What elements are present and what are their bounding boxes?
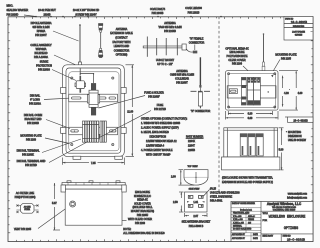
svg-text:P/N 2263: P/N 2263 [26,138,37,141]
svg-text:STEEL HARDWARE: STEEL HARDWARE [210,195,233,198]
dim 11.00 [126,65,135,157]
svg-text:P/N A-1060A: P/N A-1060A [34,56,48,59]
top label: coax rg174 [150,8,166,17]
svg-text:COLLINEAR: COLLINEAR [175,78,189,81]
svg-text:11.00: 11.00 [127,110,134,113]
svg-text:APPROVED BY: APPROVED BY [232,237,246,240]
svg-text:AC FILTER LINE: AC FILTER LINE [16,192,35,195]
mounting plate [69,72,119,151]
svg-text:10-C-0291B: 10-C-0291B [291,21,308,24]
svg-text:WITH ON/OFF 70AMP: WITH ON/OFF 70AMP [146,153,171,156]
svg-text:01/06/15: 01/06/15 [295,35,302,37]
svg-text:DIN RAIL TERMINAL GND: DIN RAIL TERMINAL GND [17,160,46,163]
svg-text:COAX LMR400: COAX LMR400 [185,7,202,10]
callout: enclosure nonmetallic [131,191,154,217]
revisions box [284,17,313,41]
svg-text:P/N 2246B: P/N 2246B [164,30,176,33]
svg-text:SOLID COVER: SOLID COVER [134,202,151,205]
svg-text:12V/5W NEMA 4: 12V/5W NEMA 4 [146,144,165,147]
callout: dipole antenna [31,22,79,41]
ground terminal block [98,121,106,142]
svg-text:DIN RAIL: DIN RAIL [30,94,41,97]
svg-text:FINISH: FINISH [248,219,255,221]
svg-text:P/N 2285J: P/N 2285J [137,214,149,217]
svg-text:LAST UPDATE: LAST UPDATE [292,31,305,34]
svg-text:2264K: 2264K [188,140,195,143]
top label: coax lmr400 [185,7,222,17]
radio module on din rail [87,83,99,115]
svg-text:915 MHz 2.1dBi: 915 MHz 2.1dBi [32,26,50,29]
svg-text:SEE ANTENNA BRACKET: SEE ANTENNA BRACKET [182,221,211,224]
callout: surge protection [36,60,76,80]
mini dwg no box [285,117,313,122]
svg-text:WRPSMA: WRPSMA [36,48,47,51]
svg-text:DIMENSION: DIMENSION [288,135,302,138]
callout: with clear cover [122,218,152,225]
callout: antenna extension cable [110,28,133,57]
dim 5.90 [279,128,284,170]
svg-text:P/N 2261B: P/N 2261B [188,11,200,14]
svg-text:2265B: 2265B [188,149,195,152]
svg-text:ALL DIMENSIONS ARE IN INCHES: ALL DIMENSIONS ARE IN INCHES [123,231,165,235]
svg-text:5.90: 5.90 [279,148,284,151]
top label: sealing washer [7,5,37,18]
optional enclosure whip antenna [262,33,265,70]
dim 5.97 [52,183,60,230]
dim 2.97 [185,213,208,218]
svg-text:X.X ± .060: X.X ± .060 [233,216,241,218]
svg-text:1. WINDOW RFI SHIELDING 2269B: 1. WINDOW RFI SHIELDING 2269B [141,122,180,125]
svg-text:ANTENNA: ANTENNA [164,22,176,25]
svg-text:MOUNTING PLATE: MOUNTING PLATE [275,53,297,56]
svg-text:P/N 2264: P/N 2264 [232,63,243,66]
svg-text:USE #8 SCREW: USE #8 SCREW [288,139,307,142]
antenna bracket side view [185,189,208,212]
enclosure mounting feet [73,156,81,159]
svg-text:P/N 2268T: P/N 2268T [176,81,188,84]
svg-text:P/N 2340B: P/N 2340B [152,12,164,15]
svg-text:OPTIONS): OPTIONS) [116,54,128,57]
corner screws [71,77,114,146]
svg-text:4.33: 4.33 [284,92,289,95]
svg-text:DIPOLE ANTENNA: DIPOLE ANTENNA [31,22,52,25]
svg-text:U-BOLTS AND STAINLESS: U-BOLTS AND STAINLESS [210,191,240,194]
svg-text:POLYCARBONATE: POLYCARBONATE [226,55,247,58]
svg-text:VENT P/N 2265: VENT P/N 2265 [14,228,32,231]
svg-text:(INCLUDES WALL: (INCLUDES WALL [132,206,153,209]
svg-text:ANG ±1°: ANG ±1° [248,215,255,218]
svg-text:MATERIAL: MATERIAL [233,225,242,228]
svg-text:PROTECTION: PROTECTION [36,64,52,67]
svg-text:DATE: DATE [253,237,258,240]
svg-text:DWG NO: DWG NO [283,236,292,238]
svg-text:DATE OF ORDER NUMBER: DATE OF ORDER NUMBER [232,202,256,205]
top view dome detail [171,166,208,185]
callout: N connector [191,110,211,113]
svg-text:10-32 X 3/8" TRUSS HD: 10-32 X 3/8" TRUSS HD [73,9,99,12]
dim 2.50 [173,192,184,212]
svg-text:U-BOLT MOUNT: U-BOLT MOUNT [156,59,175,62]
svg-text:OPTIONS: OPTIONS [284,227,298,231]
callout: fuse and holder [99,91,164,108]
svg-text:P/N 2263S: P/N 2263S [38,68,50,71]
svg-text:#0.25: #0.25 [210,187,217,190]
svg-text:NEMA 4X: NEMA 4X [137,199,148,202]
note text [123,227,165,235]
svg-text:NOTE:: NOTE: [123,227,131,231]
svg-text:NONMETALLIC: NONMETALLIC [134,195,151,198]
svg-text:5.97: 5.97 [52,202,57,205]
svg-text:12V/5W WINDOW NEMA 12: 12V/5W WINDOW NEMA 12 [146,140,177,143]
svg-text:WITH CLEAR COVER: WITH CLEAR COVER [128,218,152,221]
optional enclosure side view [222,128,280,170]
svg-text:Analynk Wireless, LLC: Analynk Wireless, LLC [267,202,302,206]
lower din rail [69,127,118,135]
svg-text:FOR: FOR [263,220,268,222]
dim 7.85 [63,158,125,165]
svg-text:UP TO 2 - 1/2": UP TO 2 - 1/2" [157,63,173,66]
svg-text:ANTENNA: ANTENNA [116,28,128,31]
svg-text:CONNECTOR: CONNECTOR [189,41,205,44]
svg-text:(ENCLOSURE SHOWN WITH TRANSMIT: (ENCLOSURE SHOWN WITH TRANSMITTER, [222,177,273,180]
note: enclosure shown with [222,177,273,184]
dim 6.30 / 6.89 [226,111,279,120]
svg-text:SURGE: SURGE [40,60,49,63]
svg-text:SEALING WASHER: SEALING WASHER [7,9,29,12]
optional enclosure modules [241,75,273,106]
svg-text:10-C-0291B: 10-C-0291B [293,119,308,122]
svg-text:FRACTIONAL ±1/16: FRACTIONAL ±1/16 [233,212,249,215]
svg-text:6.30: 6.30 [248,113,253,116]
web links [287,193,307,200]
svg-text:P/N 2272D: P/N 2272D [25,164,37,167]
svg-text:SIDE VIEW: SIDE VIEW [189,189,200,191]
svg-text:1.81: 1.81 [193,201,198,204]
svg-text:"N" CONNECTOR: "N" CONNECTOR [191,110,211,113]
svg-text:FUSE: FUSE [157,104,164,107]
ac filter line callout [15,192,36,199]
svg-text:DO NOT SCALE DWG: DO NOT SCALE DWG [233,228,252,231]
svg-text:ENCLOSURE: ENCLOSURE [135,191,150,194]
hinge upper left [61,88,66,94]
svg-text:P/N A-5980 B: P/N A-5980 B [189,225,204,228]
svg-text:APPROVED BY: APPROVED BY [232,233,246,236]
collinear omni antenna label [170,70,195,84]
main enclosure inner door line [66,68,121,153]
svg-text:LENGTH AND: LENGTH AND [114,45,130,48]
collinear omni antenna [191,57,211,108]
svg-text:4.90: 4.90 [298,92,303,95]
dipole whip antenna [78,24,81,68]
callout: din rail terminal gnd [17,142,88,167]
svg-text:BRACKET END: BRACKET END [24,118,41,121]
antenna extension cable drawing [98,23,103,58]
svg-text:CABLE ASSEMBLY: CABLE ASSEMBLY [30,44,52,47]
svg-text:10-32 PEM NUT: 10-32 PEM NUT [38,9,56,12]
svg-text:X.XX ± .030: X.XX ± .030 [233,219,243,221]
upper din rail [69,94,118,102]
svg-text:RPSMA: RPSMA [37,30,46,33]
hinge lower left [61,128,66,134]
other options notes block [141,117,204,156]
svg-text:ANTENNA: ANTENNA [176,70,188,73]
callout: din rail 6 long [29,94,68,105]
callout: N female connector [189,37,205,50]
svg-text:OTHER OPTIONS (CONTACT FACTORY: OTHER OPTIONS (CONTACT FACTORY): [141,117,188,120]
svg-text:DIN RAIL COMM: DIN RAIL COMM [24,114,42,117]
callout: u-bolt mount [156,59,175,66]
svg-text:2.97: 2.97 [193,215,198,218]
svg-text:DATE: DATE [253,233,258,236]
svg-text:P/N 2204T: P/N 2204T [35,34,47,37]
callout: optional nema 4x enclosure [225,47,249,70]
title block right: company [261,202,313,242]
callout: mounting plate 2205 [270,53,297,76]
callout: fuse [100,104,167,138]
svg-text:DIN RAIL TERMINAL: DIN RAIL TERMINAL [17,149,41,152]
din rail terminal blocks [83,121,99,142]
svg-text:CLEAR COVER: CLEAR COVER [228,59,246,62]
svg-text:4. POWER ENTRY MODULE: 4. POWER ENTRY MODULE [141,149,173,152]
svg-text:7.85: 7.85 [91,162,96,165]
dashed section separator [218,17,220,194]
svg-text:P/N 2326D: P/N 2326D [7,14,19,17]
svg-text:2.50: 2.50 [173,201,178,204]
top label: pem nut [38,9,56,17]
svg-text:OMNI 915 MHz 5.2dBi: OMNI 915 MHz 5.2dBi [170,74,195,77]
svg-text:P/N A-5981: P/N A-5981 [210,199,223,202]
optional enclosure front view [226,71,279,110]
svg-text:2324B: 2324B [44,14,51,17]
svg-text:DESCRIPTION: DESCRIPTION [150,135,167,138]
svg-text:P/N 2263B: P/N 2263B [27,122,39,125]
svg-text:info@analynk.com: info@analynk.com [287,197,307,200]
svg-text:6" LONG: 6" LONG [30,98,40,101]
enclosure side view bottom [61,181,126,225]
callout: cable assembly bulkhead [30,44,77,66]
svg-text:MISC.: MISC. [7,5,14,8]
svg-text:2. AC/DC POWER SUPPLY (227P): 2. AC/DC POWER SUPPLY (227P) [141,126,179,129]
ac line filter component [17,204,39,214]
callout: din rail comm bracket end [24,114,70,129]
callout: mounting plate [20,134,69,143]
svg-text:6.89: 6.89 [248,117,253,120]
svg-text:BULKHEAD: BULKHEAD [35,52,48,55]
callout: vent [14,206,70,231]
svg-text:FILTER: FILTER [24,209,30,211]
svg-text:CONNECTOR: CONNECTOR [114,49,130,52]
svg-text:2.00: 2.00 [171,176,176,179]
svg-text:X.XXX ± .015: X.XXX ± .015 [233,222,244,224]
svg-text:PART NUMBER: PART NUMBER [186,135,204,138]
svg-text:SCREW P/N 2234Y: SCREW P/N 2234Y [75,14,97,17]
svg-text:P/N 2263: P/N 2263 [135,222,146,225]
svg-text:3. METAL ENCLOSURES: 3. METAL ENCLOSURES [141,131,169,134]
svg-text:P/N 2272B: P/N 2272B [154,108,166,111]
svg-text:OPTIONAL NEMA 4X: OPTIONAL NEMA 4X [225,47,249,50]
top label: truss screw [62,9,99,17]
svg-text:(CONTACT: (CONTACT [115,37,128,40]
svg-text:MOUNTING: MOUNTING [288,131,301,134]
svg-text:www.analynk.com: www.analynk.com [288,193,307,196]
svg-text:ENCLOSURE: ENCLOSURE [230,51,245,54]
latch lower right [121,128,126,134]
svg-text:P/N 2263F: P/N 2263F [148,95,160,98]
svg-text:P/N(OPTION 2264): P/N(OPTION 2264) [15,196,36,199]
svg-text:P/N 2263A: P/N 2263A [29,102,41,105]
yagi antenna label [158,22,182,33]
svg-text:NEXT ASSY: NEXT ASSY [263,235,274,238]
svg-text:P/N 2263K: P/N 2263K [22,153,34,156]
callout: mounting dimension [286,131,307,142]
svg-text:MOUNT BRACKETS): MOUNT BRACKETS) [131,210,154,213]
callout: u-bolts hardware [204,187,240,202]
title block [231,201,313,241]
svg-text:TITLE: TITLE [263,213,269,215]
svg-text:TOP VIEW: TOP VIEW [187,166,197,168]
svg-text:WIRELESS ENCLOSURE: WIRELESS ENCLOSURE [269,216,306,220]
svg-text:MOUNTING PLATE: MOUNTING PLATE [20,134,42,137]
yagi antenna [143,37,197,57]
svg-text:P/N 2205: P/N 2205 [281,57,292,60]
side view modules [240,134,263,156]
svg-text:REVISIONS: REVISIONS [293,26,305,28]
surge protection device [75,76,86,93]
svg-text:10-C-0291B: 10-C-0291B [287,239,305,242]
svg-text:COAX RG174: COAX RG174 [150,8,166,11]
svg-text:EXPANSION MODULE AND POWER SUP: EXPANSION MODULE AND POWER SUPPLY) [222,181,273,184]
svg-text:"N" FEMALE: "N" FEMALE [190,37,204,40]
svg-text:FACTORY WITH: FACTORY WITH [112,41,130,44]
svg-text:EXTENSION CABLE: EXTENSION CABLE [110,32,133,35]
latch upper right [121,88,126,94]
svg-text:YAGI 915 MHz 8.1dBi: YAGI 915 MHz 8.1dBi [158,26,182,29]
main enclosure outer body [63,65,125,157]
antenna feed wire [80,68,94,83]
svg-text:125: 125 [248,222,251,224]
callout: see antenna bracket [182,221,211,228]
svg-text:2264T: 2264T [188,144,195,147]
svg-text:FUSE & HOLDER: FUSE & HOLDER [144,91,164,94]
callout: din rail terminal [17,139,81,156]
dim 4.33 / 4.90 [279,71,303,110]
